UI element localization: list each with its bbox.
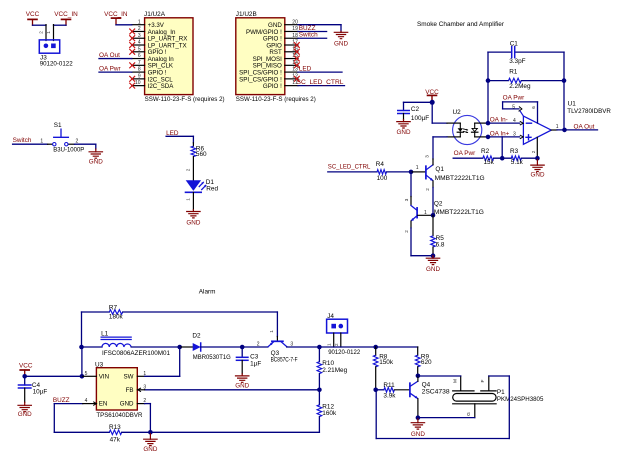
- svg-text:R4: R4: [376, 161, 385, 168]
- svg-text:GND: GND: [397, 129, 411, 136]
- svg-text:560: 560: [196, 151, 207, 158]
- svg-text:R7: R7: [109, 304, 118, 311]
- svg-text:47k: 47k: [110, 437, 121, 444]
- svg-text:SSW-110-23-F-S (requires 2): SSW-110-23-F-S (requires 2): [145, 96, 225, 103]
- svg-text:6: 6: [138, 53, 141, 59]
- svg-text:1: 1: [416, 165, 419, 171]
- svg-text:Red: Red: [206, 186, 218, 193]
- svg-text:Q4: Q4: [422, 381, 431, 388]
- svg-text:5.1k: 5.1k: [511, 159, 524, 166]
- svg-text:C2: C2: [411, 106, 420, 113]
- svg-text:13: 13: [292, 67, 298, 73]
- svg-text:9: 9: [138, 73, 141, 79]
- svg-text:IFSC0806AZER100M01: IFSC0806AZER100M01: [102, 350, 170, 357]
- svg-text:MMBT2222LT1G: MMBT2222LT1G: [434, 209, 484, 216]
- svg-text:OA Out: OA Out: [574, 123, 595, 130]
- svg-text:2.21Meg: 2.21Meg: [322, 367, 347, 374]
- svg-text:D2: D2: [192, 332, 201, 339]
- svg-text:M: M: [453, 379, 459, 383]
- svg-text:U2: U2: [453, 109, 462, 116]
- svg-text:P1: P1: [497, 389, 505, 396]
- svg-text:2: 2: [257, 341, 260, 347]
- svg-text:SW: SW: [124, 374, 134, 381]
- svg-text:LED: LED: [299, 65, 312, 72]
- svg-text:GND: GND: [334, 40, 348, 47]
- svg-text:Q2: Q2: [434, 200, 443, 207]
- svg-text:OA Pwr: OA Pwr: [454, 150, 477, 157]
- svg-text:6.8: 6.8: [436, 241, 445, 248]
- svg-text:OA Pwr: OA Pwr: [503, 95, 526, 102]
- svg-text:U1: U1: [568, 100, 577, 107]
- svg-text:MMBT2222LT1G: MMBT2222LT1G: [435, 175, 485, 182]
- svg-text:3: 3: [138, 33, 141, 39]
- svg-text:C3: C3: [250, 353, 259, 360]
- svg-text:4: 4: [138, 40, 141, 46]
- svg-text:4: 4: [513, 118, 516, 124]
- svg-text:G: G: [466, 412, 472, 416]
- svg-text:2: 2: [38, 31, 43, 34]
- svg-text:1: 1: [40, 138, 43, 144]
- svg-text:R13: R13: [109, 424, 121, 431]
- svg-text:2SC4738: 2SC4738: [422, 388, 450, 395]
- svg-text:15k: 15k: [484, 159, 495, 166]
- svg-text:GND: GND: [426, 266, 440, 273]
- svg-text:VCC: VCC: [26, 11, 40, 18]
- svg-text:2: 2: [138, 26, 141, 32]
- svg-text:3: 3: [404, 198, 409, 201]
- svg-text:160k: 160k: [322, 410, 337, 417]
- svg-text:2: 2: [185, 168, 190, 171]
- svg-text:2: 2: [76, 138, 79, 144]
- svg-text:19: 19: [292, 26, 298, 32]
- svg-text:1: 1: [424, 210, 427, 216]
- svg-text:3: 3: [513, 132, 516, 138]
- svg-text:J1/U2A: J1/U2A: [144, 11, 166, 18]
- svg-text:VIN: VIN: [99, 374, 109, 381]
- svg-text:VCC: VCC: [19, 363, 33, 370]
- svg-text:VCC_IN: VCC_IN: [54, 11, 78, 18]
- svg-text:EN: EN: [99, 401, 108, 408]
- svg-text:10µF: 10µF: [33, 389, 48, 396]
- svg-text:GND: GND: [120, 401, 134, 408]
- svg-text:F: F: [480, 379, 486, 382]
- svg-text:1µF: 1µF: [250, 360, 261, 367]
- svg-text:VCC_IN: VCC_IN: [104, 11, 128, 18]
- svg-text:5: 5: [85, 371, 88, 377]
- svg-text:5: 5: [138, 46, 141, 52]
- svg-text:1: 1: [269, 330, 274, 333]
- svg-text:2: 2: [425, 188, 430, 191]
- svg-text:180k: 180k: [109, 313, 124, 320]
- svg-text:8: 8: [138, 67, 141, 73]
- svg-text:GND: GND: [411, 431, 425, 438]
- svg-text:R3: R3: [510, 148, 519, 155]
- svg-text:OA Pwr: OA Pwr: [99, 65, 122, 72]
- svg-text:1: 1: [327, 343, 332, 346]
- svg-text:20: 20: [292, 19, 298, 25]
- svg-text:2: 2: [334, 343, 339, 346]
- svg-text:GND: GND: [143, 446, 157, 453]
- svg-text:BUZZ: BUZZ: [53, 397, 70, 404]
- svg-text:S1: S1: [54, 122, 62, 129]
- svg-text:OA In-: OA In-: [490, 117, 508, 124]
- svg-text:6: 6: [531, 106, 536, 109]
- svg-text:2.2Meg: 2.2Meg: [509, 83, 531, 90]
- svg-text:OA In+: OA In+: [490, 130, 510, 137]
- svg-text:3: 3: [143, 384, 146, 390]
- svg-text:OA Out: OA Out: [99, 52, 120, 59]
- svg-text:L1: L1: [101, 330, 109, 337]
- svg-text:18: 18: [292, 33, 298, 39]
- svg-text:90120-0122: 90120-0122: [40, 61, 73, 68]
- svg-text:TLV2780IDBVR: TLV2780IDBVR: [567, 108, 611, 115]
- svg-text:1: 1: [138, 19, 141, 25]
- svg-text:100µF: 100µF: [411, 115, 429, 122]
- svg-text:GND: GND: [235, 383, 249, 390]
- svg-text:SSW-110-23-F-S (requires 2): SSW-110-23-F-S (requires 2): [236, 96, 316, 103]
- svg-text:1: 1: [556, 124, 559, 130]
- svg-text:3.3pF: 3.3pF: [509, 58, 525, 65]
- svg-text:FB: FB: [126, 387, 134, 394]
- svg-text:R1: R1: [509, 69, 518, 76]
- svg-text:I2C_SDA: I2C_SDA: [148, 83, 175, 90]
- svg-text:GND: GND: [531, 171, 545, 178]
- svg-text:R2: R2: [481, 148, 490, 155]
- svg-text:GND: GND: [18, 411, 32, 418]
- svg-text:B3U-1000P: B3U-1000P: [53, 146, 84, 153]
- svg-text:J1/U2B: J1/U2B: [236, 11, 257, 18]
- svg-text:SC_LED_CTRL: SC_LED_CTRL: [328, 164, 371, 171]
- svg-text:3: 3: [290, 341, 293, 347]
- svg-text:BC857C-7-F: BC857C-7-F: [271, 356, 298, 363]
- svg-text:Smoke Chamber and Amplifier: Smoke Chamber and Amplifier: [417, 21, 505, 28]
- svg-text:3.9k: 3.9k: [383, 392, 396, 399]
- svg-text:TPS61040DBVR: TPS61040DBVR: [96, 412, 142, 419]
- svg-text:1: 1: [185, 198, 190, 201]
- svg-text:150k: 150k: [379, 359, 394, 366]
- svg-text:C1: C1: [510, 40, 519, 47]
- svg-text:Alarm: Alarm: [199, 288, 216, 295]
- svg-text:100: 100: [377, 175, 388, 182]
- svg-text:Switch: Switch: [13, 137, 32, 144]
- svg-text:7: 7: [138, 60, 141, 66]
- svg-text:2: 2: [404, 230, 409, 233]
- svg-text:MBR0530T1G: MBR0530T1G: [193, 354, 231, 361]
- svg-text:SC_LED_CTRL: SC_LED_CTRL: [297, 79, 344, 86]
- svg-text:2: 2: [531, 150, 536, 153]
- svg-text:R11: R11: [383, 382, 395, 389]
- svg-text:Q1: Q1: [435, 166, 444, 173]
- svg-text:Switch: Switch: [299, 32, 318, 39]
- svg-text:3: 3: [425, 155, 430, 158]
- svg-text:4: 4: [85, 398, 88, 404]
- svg-text:1: 1: [46, 31, 51, 34]
- svg-text:GPIO !: GPIO !: [263, 83, 282, 90]
- svg-text:90120-0122: 90120-0122: [328, 349, 360, 356]
- svg-text:620: 620: [421, 359, 432, 366]
- svg-text:GND: GND: [186, 220, 200, 227]
- svg-text:5: 5: [512, 104, 515, 110]
- svg-text:PKM24SPH3805: PKM24SPH3805: [497, 396, 544, 403]
- svg-text:10: 10: [135, 80, 141, 86]
- svg-text:GND: GND: [89, 159, 103, 166]
